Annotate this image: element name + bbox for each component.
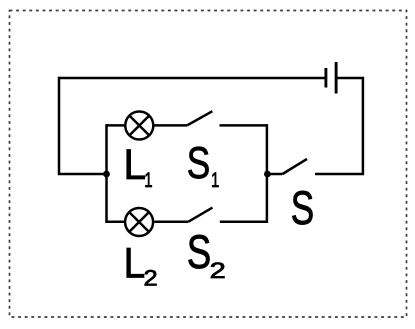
svg-text:1: 1 [211, 167, 219, 191]
svg-text:S: S [187, 139, 210, 188]
svg-text:1: 1 [144, 167, 152, 191]
svg-text:S: S [291, 181, 314, 234]
svg-text:S: S [187, 225, 211, 278]
svg-text:L: L [124, 141, 147, 188]
svg-text:2: 2 [144, 266, 158, 291]
svg-text:2: 2 [210, 259, 226, 283]
svg-text:L: L [124, 239, 146, 287]
